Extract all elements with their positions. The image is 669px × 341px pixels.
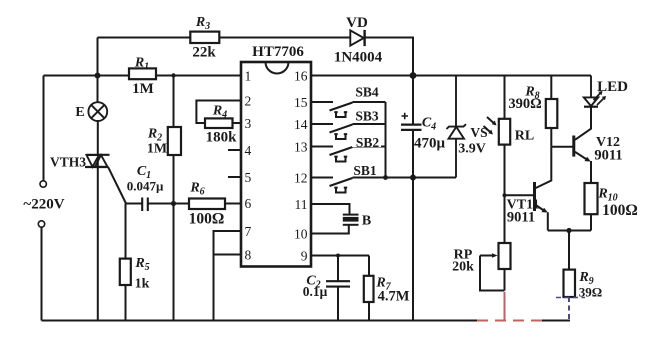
svg-text:39Ω: 39Ω	[579, 285, 602, 300]
wire pin10 to buzzer	[311, 225, 349, 234]
pin numbers right column	[294, 69, 308, 264]
wire R1 to pin1	[156, 75, 241, 77]
node junction dot at R2 top	[171, 73, 175, 77]
wire bottom rail right part	[542, 320, 570, 322]
node junction dot VT11 base tap	[503, 193, 507, 197]
resistor R6 100ohm	[189, 199, 225, 210]
svg-text:7: 7	[245, 224, 252, 239]
resistor R5 1k	[120, 259, 131, 285]
svg-text:8: 8	[245, 248, 252, 263]
IC U1 HT7706	[241, 62, 311, 267]
node junction dot C4 rail row	[410, 175, 416, 181]
wire lower terminal down to bottom rail	[41, 227, 43, 320]
label SB3	[352, 109, 381, 124]
wire R4 to pin3	[233, 122, 242, 124]
svg-text:C4: C4	[422, 116, 436, 133]
wire triac gate diagonal	[108, 167, 126, 204]
switch SB2 at pin13	[311, 147, 386, 162]
svg-text:4.7M: 4.7M	[378, 289, 410, 305]
capacitor C4 470u electrolytic	[401, 113, 422, 130]
svg-text:SB3: SB3	[355, 109, 379, 124]
svg-text:~220V: ~220V	[23, 197, 64, 213]
diode VD 1N4004	[350, 30, 364, 46]
resistor R7 4.7M	[364, 256, 374, 321]
resistor R4 180k	[205, 118, 233, 128]
svg-text:15: 15	[294, 95, 308, 110]
svg-text:3: 3	[245, 116, 252, 131]
svg-text:2: 2	[245, 94, 252, 109]
svg-text:3.9V: 3.9V	[458, 142, 486, 157]
svg-text:100Ω: 100Ω	[602, 202, 638, 219]
svg-text:1N4004: 1N4004	[334, 50, 383, 66]
svg-text:1: 1	[245, 69, 252, 84]
wire R6 to pin6	[225, 203, 241, 205]
svg-text:HT7706: HT7706	[252, 44, 304, 60]
node junction R2 crossing	[171, 201, 176, 206]
wire pin11 to buzzer	[311, 204, 350, 215]
svg-text:9011: 9011	[507, 210, 535, 226]
svg-text:RL: RL	[515, 129, 534, 144]
wire pin8 stub to ground vertical	[214, 254, 242, 256]
photoresistor RL	[484, 76, 511, 244]
terminal upper of ~220V	[40, 181, 46, 187]
wire emitter row	[548, 230, 591, 232]
buzzer B	[343, 215, 359, 225]
potentiometer RP 20k	[480, 243, 511, 321]
svg-text:VD: VD	[346, 15, 368, 31]
switch SB4 at pin15	[311, 102, 386, 117]
wire left corner down to terminal	[43, 76, 45, 181]
svg-text:6: 6	[245, 196, 252, 211]
svg-text:1M: 1M	[132, 81, 154, 97]
svg-text:R1: R1	[134, 56, 149, 73]
node junction dot at lamp branch	[95, 73, 101, 79]
capacitor C1 0.047u	[142, 198, 148, 212]
label SB1	[351, 163, 380, 178]
resistor R8 390ohm	[546, 76, 558, 147]
wire pin5 stub	[228, 176, 241, 178]
switch SB3 at pin14	[311, 124, 386, 139]
svg-text:R6: R6	[189, 181, 204, 198]
node junction dot emitter row	[566, 228, 571, 233]
node junction dot VD rail	[410, 72, 417, 79]
wire R2 vertical top	[173, 76, 175, 128]
svg-text:0.1μ: 0.1μ	[303, 284, 328, 299]
resistor R2 1M	[168, 127, 181, 155]
svg-text:100Ω: 100Ω	[189, 211, 225, 228]
wire VT11 base	[505, 194, 534, 196]
wire top rail right segment with corner down	[365, 38, 413, 76]
switch SB1 at pin12	[311, 178, 386, 193]
wire switch common vertical	[385, 102, 387, 178]
node junction dot C2 tap	[336, 254, 340, 258]
svg-text:5: 5	[245, 170, 252, 185]
svg-text:SB1: SB1	[353, 163, 377, 178]
node junction dot SB common	[383, 175, 388, 180]
svg-text:E: E	[75, 105, 84, 120]
svg-text:1M: 1M	[147, 142, 167, 157]
transistor VT11 9011	[535, 147, 552, 231]
svg-text:R3: R3	[195, 15, 210, 32]
wire left vertical from top rail to lamp	[97, 38, 99, 103]
zener diode VS 3.9V	[447, 76, 467, 178]
resistor R3 22k	[190, 32, 219, 43]
wire pin9 row	[311, 255, 369, 257]
svg-text:390Ω: 390Ω	[508, 96, 541, 112]
transistor V12 9011	[574, 107, 591, 183]
svg-text:13: 13	[294, 140, 308, 155]
svg-text:B: B	[362, 214, 371, 229]
resistor R10 100ohm	[585, 183, 598, 231]
svg-text:9: 9	[301, 249, 308, 264]
svg-text:0.047μ: 0.047μ	[127, 179, 164, 194]
label SB2	[352, 135, 381, 150]
svg-text:12: 12	[294, 171, 308, 186]
terminal lower of ~220V	[38, 221, 44, 227]
triac VTH3	[85, 155, 110, 167]
svg-text:11: 11	[295, 197, 308, 212]
svg-text:4: 4	[245, 143, 252, 158]
wire bottom rail	[42, 320, 478, 322]
pin numbers left column	[245, 69, 252, 263]
wire SB1 row to zener	[386, 177, 457, 179]
svg-text:R4: R4	[212, 104, 227, 121]
wire R2 vertical bottom to rail	[173, 155, 175, 321]
wire R5 branch	[125, 204, 127, 321]
wire gate node to C1	[126, 203, 142, 205]
svg-text:470μ: 470μ	[414, 136, 446, 152]
svg-text:R5: R5	[134, 256, 149, 273]
lamp E	[88, 102, 107, 121]
svg-text:10: 10	[294, 227, 308, 242]
label SB4	[352, 85, 381, 100]
svg-text:14: 14	[294, 117, 308, 132]
resistor R9 39ohm	[556, 231, 585, 321]
wire V12 base row from R8/VT11 collector	[551, 146, 573, 148]
wire lamp to triac to bottom rail	[97, 121, 99, 321]
wire pin7 to ground vertical	[214, 231, 242, 321]
svg-text:SB2: SB2	[356, 135, 380, 150]
wire main horizontal 220V row	[44, 75, 130, 77]
wire pin4 stub	[228, 149, 241, 151]
wire top rail middle segment	[220, 37, 351, 39]
wire bottom rail red dashed artifact	[477, 320, 542, 322]
wire C4 branch vertical	[412, 76, 414, 321]
svg-text:20k: 20k	[452, 260, 474, 275]
svg-text:LED: LED	[597, 79, 628, 95]
wire pin2 loop to R4	[196, 101, 241, 124]
wire pin16 rail to LED	[311, 75, 591, 77]
svg-text:1k: 1k	[135, 277, 150, 292]
capacitor C2 0.1u	[326, 256, 350, 321]
LED	[584, 76, 606, 107]
wire top rail left segment	[98, 37, 191, 39]
svg-text:VS: VS	[470, 125, 487, 140]
wire C1 to R6	[148, 203, 189, 205]
svg-text:VTH3: VTH3	[50, 155, 86, 170]
svg-text:22k: 22k	[192, 45, 216, 61]
svg-text:16: 16	[294, 69, 308, 84]
svg-text:SB4: SB4	[355, 85, 379, 100]
svg-text:9011: 9011	[594, 148, 622, 164]
resistor R1 1M	[129, 68, 156, 79]
svg-text:180k: 180k	[206, 130, 238, 146]
